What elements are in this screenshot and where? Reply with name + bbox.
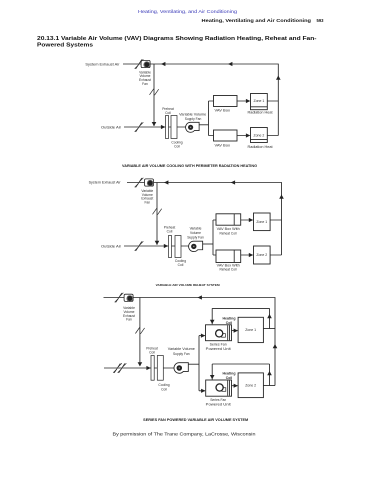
svg-text:Outside Air: Outside Air: [101, 245, 122, 249]
svg-text:VAV Box: VAV Box: [215, 108, 231, 112]
svg-text:Radiation Heat: Radiation Heat: [248, 111, 273, 115]
svg-text:Fan: Fan: [144, 200, 150, 204]
svg-text:SERIES FAN POWERED VARIABLE AI: SERIES FAN POWERED VARIABLE AIR VOLUME S…: [143, 418, 248, 422]
svg-text:Zone 1: Zone 1: [256, 220, 267, 224]
svg-text:Heating, Ventilating and Air C: Heating, Ventilating and Air Conditionin…: [202, 18, 312, 23]
svg-text:Variable Volume: Variable Volume: [179, 112, 206, 116]
svg-text:Coil: Coil: [161, 387, 167, 391]
svg-text:Zone 2: Zone 2: [256, 253, 267, 257]
svg-text:Heating: Heating: [223, 316, 236, 320]
svg-text:Series Fan: Series Fan: [210, 398, 226, 402]
svg-text:Powered Unit: Powered Unit: [206, 347, 231, 351]
svg-text:Coil: Coil: [226, 376, 232, 380]
svg-text:Coil: Coil: [165, 111, 171, 115]
svg-text:By permission of The Trane Com: By permission of The Trane Company, LaCr…: [113, 431, 257, 436]
svg-text:Reheat Coil: Reheat Coil: [220, 268, 237, 272]
svg-text:Coil: Coil: [226, 321, 232, 325]
svg-text:Coil: Coil: [167, 230, 173, 234]
svg-text:Variable: Variable: [190, 227, 202, 231]
svg-text:Heating: Heating: [223, 371, 236, 375]
svg-text:Outside Air: Outside Air: [101, 126, 122, 130]
svg-text:VARIABLE AIR VOLUME COOLING WI: VARIABLE AIR VOLUME COOLING WITH PERIMET…: [122, 164, 258, 168]
svg-text:Supply Fan: Supply Fan: [185, 117, 202, 121]
svg-text:Powered Unit: Powered Unit: [206, 402, 231, 406]
svg-text:Zone 2: Zone 2: [245, 383, 256, 387]
svg-text:Powered Systems: Powered Systems: [37, 43, 93, 49]
svg-text:Zone 1: Zone 1: [245, 328, 256, 332]
svg-text:Supply Fan: Supply Fan: [173, 352, 190, 356]
svg-text:Zone 1: Zone 1: [253, 99, 264, 103]
svg-text:VAV Box: VAV Box: [215, 143, 231, 147]
svg-text:20.13.1 Variable Air Volume (V: 20.13.1 Variable Air Volume (VAV) Diagra…: [37, 36, 317, 42]
svg-text:Coil: Coil: [174, 144, 180, 148]
svg-text:Radiation Heat: Radiation Heat: [248, 145, 273, 149]
svg-text:System Exhaust Air: System Exhaust Air: [85, 62, 120, 66]
svg-text:Fan: Fan: [126, 318, 132, 322]
svg-text:Coil: Coil: [178, 263, 184, 267]
svg-text:Supply Fan: Supply Fan: [187, 236, 204, 240]
svg-text:Fan: Fan: [142, 82, 148, 86]
svg-text:Zone 2: Zone 2: [253, 134, 264, 138]
svg-text:593: 593: [317, 18, 324, 23]
svg-text:VARIABLE AIR VOLUME REHEAT SYS: VARIABLE AIR VOLUME REHEAT SYSTEM: [156, 283, 221, 287]
svg-text:Coil: Coil: [149, 351, 155, 355]
svg-text:Reheat Coil: Reheat Coil: [220, 232, 237, 236]
svg-text:System Exhaust Air: System Exhaust Air: [89, 181, 122, 185]
svg-text:Variable Volume: Variable Volume: [168, 347, 195, 351]
svg-text:Heating, Ventilating, and Air: Heating, Ventilating, and Air Conditioni…: [138, 9, 238, 14]
